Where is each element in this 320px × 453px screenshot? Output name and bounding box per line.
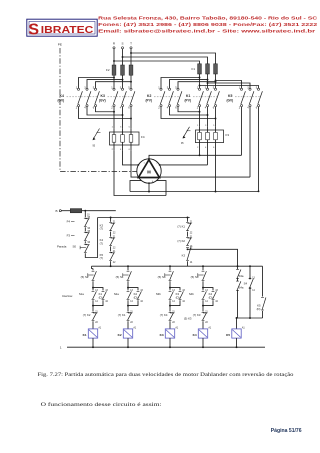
svg-text:(7): (7) xyxy=(100,241,103,245)
svg-text:44: 44 xyxy=(105,301,108,303)
svg-text:6: 6 xyxy=(129,149,131,151)
svg-text:S4b: S4b xyxy=(189,292,194,296)
svg-text:(PV): (PV) xyxy=(146,99,152,103)
coil K5 xyxy=(236,318,238,329)
svg-text:21: 21 xyxy=(95,311,98,313)
svg-text:A1: A1 xyxy=(133,326,137,329)
svg-text:K4: K4 xyxy=(60,94,64,98)
svg-text:21: 21 xyxy=(172,311,175,313)
wire K3 outputs down to F4 xyxy=(113,107,115,129)
svg-text:2: 2 xyxy=(197,147,199,149)
svg-text:S0: S0 xyxy=(73,245,77,249)
svg-text:(7): (7) xyxy=(100,256,103,260)
svg-text:14: 14 xyxy=(190,262,193,264)
svg-text:22: 22 xyxy=(130,322,133,324)
svg-text:O funcionamento desse circuito: O funcionamento desse circuito é assim: xyxy=(41,401,163,408)
wire K1 outputs down to F3 xyxy=(199,107,201,127)
wire bridge K4 pole2 to K3 xyxy=(87,107,123,115)
svg-text:F4: F4 xyxy=(67,219,71,223)
contact K2 NC interlock chain right xyxy=(187,232,189,237)
svg-text:13: 13 xyxy=(252,277,255,279)
svg-text:4: 4 xyxy=(205,107,207,110)
svg-text:4: 4 xyxy=(205,147,207,149)
svg-text:(GV): (GV) xyxy=(58,99,65,103)
svg-text:(7) K2: (7) K2 xyxy=(177,239,185,243)
svg-text:22: 22 xyxy=(113,233,116,235)
svg-text:M: M xyxy=(147,170,151,175)
svg-text:1: 1 xyxy=(144,162,146,164)
wire S0 output jog up to rail xyxy=(85,218,97,258)
svg-text:22: 22 xyxy=(190,233,193,235)
wire bridge K2 pole1 to K1 xyxy=(161,107,216,119)
svg-text:43: 43 xyxy=(140,290,143,292)
svg-text:2: 2 xyxy=(158,107,160,110)
svg-text:1: 1 xyxy=(112,127,114,129)
pushbutton S0 Parada NC xyxy=(84,241,86,243)
svg-text:(7) K4: (7) K4 xyxy=(160,313,168,317)
svg-text:21: 21 xyxy=(190,222,193,224)
wire branch to K4 pole 1 xyxy=(79,78,115,89)
pushbutton S2 NO start xyxy=(92,269,94,271)
contact F4 95-96 NC xyxy=(84,211,86,218)
wire branch to K4 pole 3 xyxy=(96,82,132,89)
svg-text:A1: A1 xyxy=(98,326,102,329)
svg-text:(GV): (GV) xyxy=(99,99,106,103)
wire motor bottom rail to F3 pole3 and K5 pole3 xyxy=(130,191,259,193)
logo SIBRATEC box xyxy=(27,19,97,36)
svg-text:S2a: S2a xyxy=(114,292,119,296)
svg-text:6: 6 xyxy=(213,107,215,110)
svg-text:F2: F2 xyxy=(106,68,110,72)
svg-text:21: 21 xyxy=(113,251,116,253)
wire bridge K2 pole3 to K1 xyxy=(178,107,200,112)
svg-text:6: 6 xyxy=(256,107,258,110)
svg-text:A1: A1 xyxy=(208,326,212,329)
wire feeder R to F1 left xyxy=(114,61,200,64)
svg-text:21: 21 xyxy=(190,236,193,238)
wire control rail B xyxy=(92,265,263,267)
svg-text:14: 14 xyxy=(172,301,175,303)
svg-text:21: 21 xyxy=(113,222,116,224)
svg-text:2: 2 xyxy=(239,107,241,110)
svg-text:95: 95 xyxy=(88,217,91,219)
svg-text:Rua Selesta Fronza, 430, Bairr: Rua Selesta Fronza, 430, Bairro Taboão, … xyxy=(98,16,317,21)
wire F4 pole3 to motor terminal V1 xyxy=(131,150,138,177)
motor M Dahlander xyxy=(137,159,161,183)
svg-text:Intertrav.: Intertrav. xyxy=(62,294,73,298)
svg-text:S3b: S3b xyxy=(156,292,161,296)
coil K1 xyxy=(92,321,94,329)
wire bridge K4 pole1 to K3 xyxy=(79,107,132,119)
wire branch to column 5 xyxy=(188,249,238,269)
svg-text:6: 6 xyxy=(93,107,95,110)
svg-text:3: 3 xyxy=(120,127,122,129)
svg-text:K2: K2 xyxy=(118,333,122,337)
svg-text:F4: F4 xyxy=(141,135,145,139)
wire rail B corner into S2 column xyxy=(92,266,94,268)
svg-text:(5) K3: (5) K3 xyxy=(184,317,192,321)
pushbutton S3 NO start xyxy=(202,266,204,270)
svg-text:A1: A1 xyxy=(175,326,179,329)
svg-text:4: 4 xyxy=(167,107,169,110)
coil K2 xyxy=(127,321,129,329)
svg-text:95: 95 xyxy=(88,231,91,233)
svg-text:44: 44 xyxy=(215,301,218,303)
svg-text:22: 22 xyxy=(95,322,98,324)
svg-text:1: 1 xyxy=(197,125,199,127)
wire PE dash-dot earth line xyxy=(60,48,137,172)
svg-text:K3: K3 xyxy=(182,253,186,257)
wire branch to K5 pole 3 xyxy=(200,86,259,89)
svg-text:(7): (7) xyxy=(100,227,103,231)
svg-text:21: 21 xyxy=(130,311,133,313)
svg-text:S4: S4 xyxy=(244,282,248,286)
svg-text:4: 4 xyxy=(120,107,122,110)
contact F3 95-96 NC xyxy=(84,227,86,231)
svg-text:22: 22 xyxy=(113,247,116,249)
svg-text:44: 44 xyxy=(140,301,143,303)
wire F4 pole2 to motor terminal U1 xyxy=(123,150,139,165)
svg-text:95: 95 xyxy=(93,146,96,148)
svg-text:2: 2 xyxy=(197,107,199,110)
svg-text:S4a: S4a xyxy=(239,285,244,289)
wire branch to K4 pole 2 xyxy=(87,80,123,89)
wire branch to K2 pole 2 xyxy=(170,80,208,89)
svg-text:(GV): (GV) xyxy=(227,99,234,103)
svg-text:Página 51/76: Página 51/76 xyxy=(271,428,302,434)
svg-text:K3: K3 xyxy=(160,333,164,337)
fuse F5 control xyxy=(61,210,70,212)
svg-text:43: 43 xyxy=(105,290,108,292)
wire F4 pole1 to motor lower feed xyxy=(114,150,166,195)
svg-text:S: S xyxy=(28,21,39,38)
contact K1 (D) seal parallel xyxy=(93,288,103,291)
svg-text:43: 43 xyxy=(182,290,185,292)
svg-text:14: 14 xyxy=(130,301,133,303)
contact K3 NC interlock chain xyxy=(110,218,112,222)
svg-text:R: R xyxy=(113,42,116,46)
svg-text:(7) K2: (7) K2 xyxy=(83,313,91,317)
wire motor lower right to K5 pole 2 xyxy=(160,176,250,178)
wire F2 outputs down to K3 xyxy=(113,75,115,88)
coil K4 xyxy=(202,321,204,329)
svg-text:F1: F1 xyxy=(191,67,195,71)
contact K5 NC interlock chain xyxy=(110,246,112,251)
svg-text:(D): (D) xyxy=(257,307,261,311)
svg-text:21: 21 xyxy=(113,236,116,238)
pushbutton S4 NO start xyxy=(169,266,171,270)
svg-text:43: 43 xyxy=(215,290,218,292)
svg-text:F3: F3 xyxy=(67,233,71,237)
contact K1 NC interlock chain right xyxy=(187,218,189,222)
svg-text:21: 21 xyxy=(205,311,208,313)
svg-text:(7) K1: (7) K1 xyxy=(118,313,126,317)
svg-text:K1: K1 xyxy=(186,94,190,98)
wire rail B right corner down xyxy=(262,266,264,296)
svg-text:14: 14 xyxy=(252,290,255,292)
svg-text:5: 5 xyxy=(213,125,215,127)
svg-text:Email: sibratec@sibratec.ind: Email: sibratec@sibratec.ind.br - Site: … xyxy=(98,28,316,33)
wire R S T verticals to F2 xyxy=(113,49,115,65)
svg-text:22: 22 xyxy=(113,262,116,264)
svg-text:Parada: Parada xyxy=(57,245,67,249)
svg-text:S: S xyxy=(121,42,123,46)
svg-text:96: 96 xyxy=(88,228,91,230)
svg-text:96: 96 xyxy=(88,242,91,244)
svg-text:4: 4 xyxy=(120,149,122,151)
svg-text:(PV): (PV) xyxy=(185,99,191,103)
svg-text:Fones: (47) 3521 2986 - (47: Fones: (47) 3521 2986 - (47) 8806 9038 -… xyxy=(98,22,318,27)
svg-text:22: 22 xyxy=(205,322,208,324)
svg-text:5: 5 xyxy=(129,127,131,129)
svg-text:14: 14 xyxy=(95,301,98,303)
wire control rail A xyxy=(98,217,190,219)
svg-text:K3: K3 xyxy=(101,94,105,98)
svg-text:6: 6 xyxy=(128,107,130,110)
contact K3 (D) seal parallel xyxy=(170,288,180,291)
svg-text:13: 13 xyxy=(190,246,193,248)
svg-text:6: 6 xyxy=(213,147,215,149)
svg-text:10: 10 xyxy=(87,214,90,216)
wire feeder T to F1 right xyxy=(131,53,216,64)
svg-text:S3a: S3a xyxy=(239,274,244,278)
wire branch to K5 pole 1 xyxy=(216,81,242,89)
wire bridge K2 pole2 to K1 xyxy=(170,107,208,115)
contact K4 (D) seal parallel xyxy=(203,288,213,291)
svg-text:22: 22 xyxy=(172,322,175,324)
wire F1 outputs down to K1 xyxy=(199,74,201,88)
svg-text:K2: K2 xyxy=(147,94,151,98)
wire branch to K2 pole 1 xyxy=(161,78,200,89)
contact K2 (D) seal parallel xyxy=(128,288,138,291)
svg-text:K5: K5 xyxy=(226,333,230,337)
svg-text:4: 4 xyxy=(247,107,249,110)
svg-text:IBRATEC: IBRATEC xyxy=(41,25,94,36)
svg-text:(7) K3: (7) K3 xyxy=(193,313,201,317)
overload relay F4 trip lever xyxy=(93,129,100,140)
svg-text:95: 95 xyxy=(181,143,184,145)
wire branch to K5 pole 2 xyxy=(208,83,251,88)
svg-text:4: 4 xyxy=(84,107,86,110)
svg-text:PE: PE xyxy=(58,42,62,46)
svg-text:6: 6 xyxy=(175,107,177,110)
contact S4 NO from rail xyxy=(249,266,251,277)
svg-text:K5: K5 xyxy=(228,94,232,98)
pushbutton S1 NO start xyxy=(127,266,129,270)
svg-text:1: 1 xyxy=(60,346,62,350)
wire motor bottom box xyxy=(130,181,141,192)
svg-text:Fig. 7.27: Partida automática: Fig. 7.27: Partida automática para duas … xyxy=(38,372,294,378)
svg-text:F3: F3 xyxy=(226,133,230,137)
wire bridge K4 pole3 to K3 xyxy=(96,107,115,112)
svg-text:B: B xyxy=(56,209,58,213)
svg-text:44: 44 xyxy=(182,301,185,303)
svg-text:2: 2 xyxy=(76,107,78,110)
wire branch to K2 pole 3 xyxy=(178,82,216,89)
svg-text:T: T xyxy=(130,42,132,46)
wire motor terminal to F3 pole2 xyxy=(160,164,208,166)
wire column 5 merge xyxy=(237,317,263,319)
wire motor top to F3 pole1 and K5 pole1 xyxy=(149,155,242,159)
svg-text:2: 2 xyxy=(111,107,113,110)
svg-text:K4: K4 xyxy=(193,333,197,337)
svg-text:(7) K1: (7) K1 xyxy=(177,224,185,228)
svg-text:3: 3 xyxy=(205,125,207,127)
svg-text:S1a: S1a xyxy=(79,292,84,296)
coil K3 xyxy=(169,321,171,329)
contact K4 NC interlock chain xyxy=(110,232,112,237)
svg-text:14: 14 xyxy=(205,301,208,303)
wire feeder S to F1 middle xyxy=(123,57,208,64)
svg-text:A1: A1 xyxy=(242,326,246,329)
svg-text:K1: K1 xyxy=(83,333,87,337)
overload relay F3 trip lever xyxy=(183,127,190,138)
svg-text:2: 2 xyxy=(112,149,114,151)
